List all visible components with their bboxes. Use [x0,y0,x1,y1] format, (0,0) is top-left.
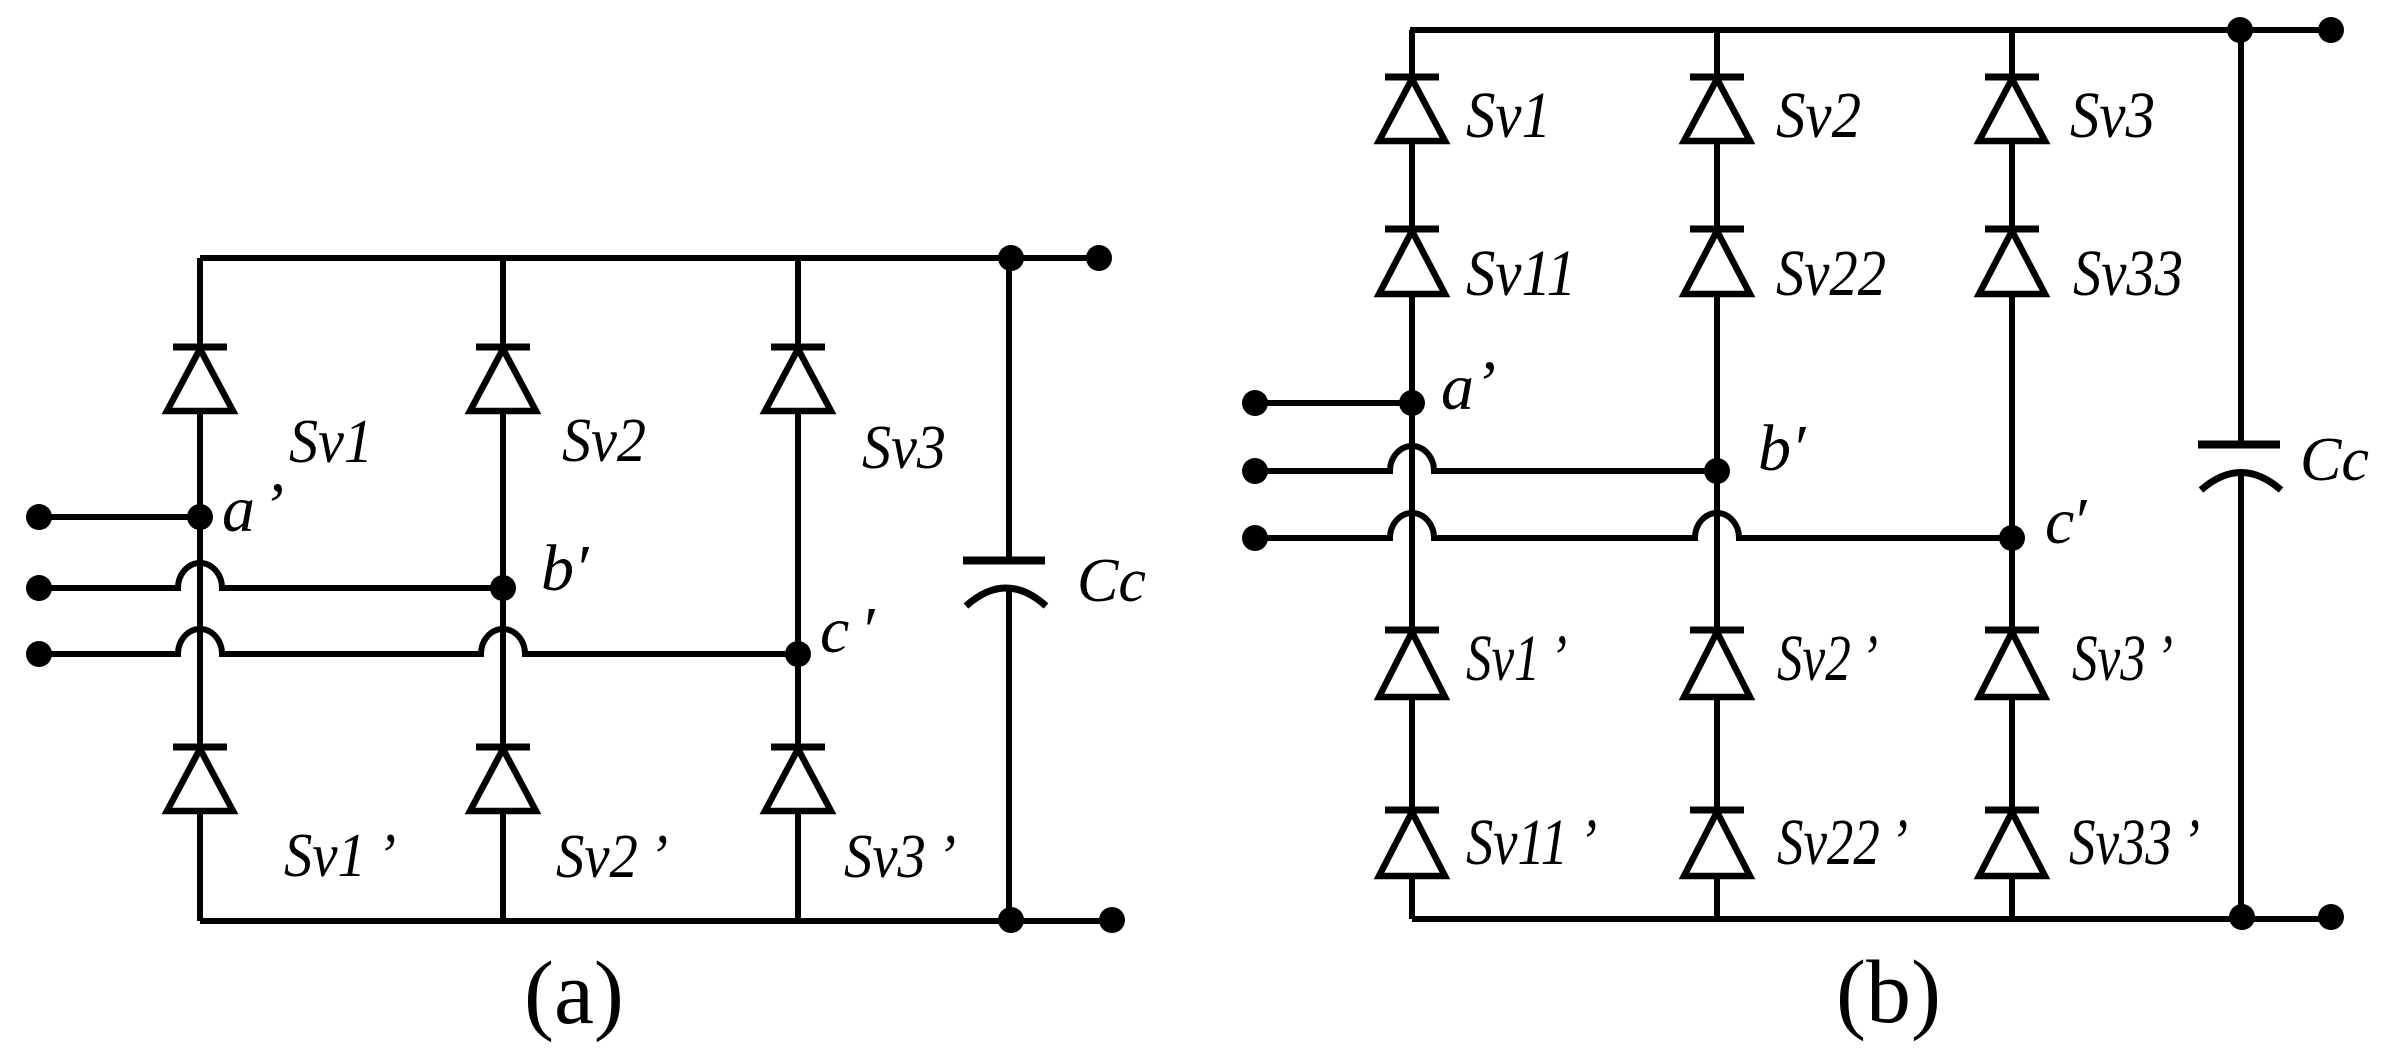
diode Sv3' (b) [1979,630,2045,697]
wire: input phase a to node a' [39,514,200,520]
wire: capacitor Cc branch lower segment [1006,589,1012,921]
diode Sv22' [1684,810,1750,876]
wire: capacitor Cc branch upper segment (b) [2238,30,2244,441]
node a' junction dot (b) [1399,390,1425,416]
wire: figure (a) top DC rail [200,255,1099,261]
svg-text:Sv33 ’: Sv33 ’ [2069,806,2200,879]
svg-text:Sv11: Sv11 [1466,237,1576,310]
svg-text:Sv3: Sv3 [2070,79,2155,152]
diode Sv1' [167,747,233,811]
svg-text:Sv3 ’: Sv3 ’ [844,823,956,891]
junction dot: top rail / Cc branch (b) [2227,17,2253,43]
svg-text:Sv1: Sv1 [289,408,373,476]
svg-text:a: a [1441,351,1474,424]
diode Sv11' [1379,810,1445,876]
wire: figure (a) phase leg 2 vertical [500,258,506,921]
diode Sv2 (b) [1684,77,1750,141]
svg-text:c: c [2045,485,2074,558]
wire: figure (b) phase leg 2 vertical [1714,30,1720,919]
svg-text:b′: b′ [541,532,590,605]
capacitor Cc curved plate (b) [2201,473,2281,491]
wire: capacitor Cc branch lower segment (b) [2238,473,2244,919]
diode Sv3 [765,347,831,411]
diode Sv1 [167,347,233,411]
wire: input phase b to node b' (b) (hops leg 1) [1255,446,1717,471]
input terminal dot phase a [26,504,52,530]
wire: figure (b) top DC rail [1410,27,2331,33]
svg-text:Sv2 ’: Sv2 ’ [556,823,668,891]
diode Sv33' [1979,810,2045,876]
svg-text:Sv2: Sv2 [1776,79,1861,152]
node b' junction dot (b) [1704,458,1730,484]
wire: figure (a) bottom DC rail [200,918,1112,924]
svg-text:Cc: Cc [2300,426,2369,494]
svg-text:′: ′ [860,594,876,667]
terminal dot: DC- output (b) [2318,904,2344,930]
diode Sv33 [1979,229,2045,294]
diode Sv22 [1684,229,1750,294]
svg-text:Sv33: Sv33 [2073,237,2183,310]
wire: figure (a) phase leg 3 vertical [795,258,801,921]
wire: capacitor Cc branch upper segment [1006,258,1012,557]
svg-text:Sv3 ’: Sv3 ’ [2072,622,2173,695]
capacitor Cc top plate [963,557,1045,565]
junction dot: bottom rail / Cc branch [998,907,1024,933]
terminal dot: DC- output [1099,907,1125,933]
svg-text:Sv22 ’: Sv22 ’ [1777,806,1908,879]
input terminal dot phase b (b) [1242,458,1268,484]
diode Sv3 (b) [1979,77,2045,141]
svg-text:a: a [222,473,255,546]
svg-text:Sv22: Sv22 [1776,237,1886,310]
svg-text:Sv11 ’: Sv11 ’ [1466,806,1597,879]
diode Sv11 [1379,229,1445,294]
input terminal dot phase b [26,575,52,601]
diode Sv2' [470,747,536,811]
capacitor Cc top plate (b) [2198,441,2280,449]
input terminal dot phase c (b) [1242,525,1268,551]
diode Sv1 (b) [1379,77,1445,141]
diode Sv2 [470,347,536,411]
svg-text:Sv1 ’: Sv1 ’ [284,822,396,890]
svg-text:’: ’ [262,470,284,543]
input terminal dot phase c [26,641,52,667]
svg-text:Sv1: Sv1 [1466,79,1551,152]
capacitor Cc curved plate [966,588,1046,606]
input terminal dot phase a (b) [1242,390,1268,416]
svg-text:c: c [820,594,849,667]
diode Sv2' (b) [1684,630,1750,697]
svg-text:(a): (a) [524,944,624,1043]
svg-text:b′: b′ [1758,412,1807,485]
node b' junction dot [490,575,516,601]
svg-text:Sv2: Sv2 [562,407,646,475]
wire: input phase b to node b' (hops leg 1) [39,563,503,588]
svg-text:Sv3: Sv3 [862,414,946,482]
svg-text:’: ’ [1474,348,1496,421]
svg-text:Sv1 ’: Sv1 ’ [1466,622,1567,695]
wire: input phase a to node a' (b) [1255,400,1412,406]
junction dot: bottom rail / Cc branch (b) [2229,904,2255,930]
terminal dot: DC+ output [1086,245,1112,271]
wire: figure (b) phase leg 3 vertical [2009,30,2015,919]
diode Sv1' (b) [1379,630,1445,697]
node a' junction dot [187,504,213,530]
wire: input phase c to node c' (hops legs 1,2) [39,629,798,654]
svg-text:(b): (b) [1836,943,1941,1042]
node c' junction dot [785,641,811,667]
diode Sv3' [765,747,831,811]
svg-text:Cc: Cc [1077,547,1146,615]
node c' junction dot (b) [1999,525,2025,551]
wire: figure (b) bottom DC rail [1412,916,2331,922]
junction dot: top rail / Cc branch [998,245,1024,271]
wire: figure (b) phase leg 1 vertical [1409,30,1415,919]
wire: figure (a) phase leg 1 vertical [197,258,203,921]
terminal dot: DC+ output (b) [2318,17,2344,43]
svg-text:′: ′ [2072,485,2088,558]
svg-text:Sv2 ’: Sv2 ’ [1777,622,1878,695]
wire: input phase c to node c' (b) (hops legs 1,2) [1255,513,2012,538]
